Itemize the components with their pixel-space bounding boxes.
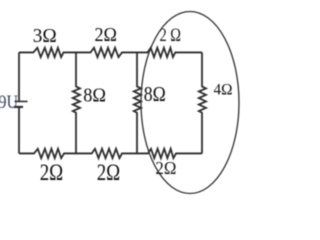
- svg-text:2Ω: 2Ω: [95, 25, 118, 46]
- svg-text:9U: 9U: [0, 93, 18, 113]
- svg-text:8Ω: 8Ω: [83, 86, 106, 107]
- svg-text:3Ω: 3Ω: [33, 26, 57, 47]
- svg-text:8Ω: 8Ω: [144, 82, 166, 106]
- svg-text:2Ω: 2Ω: [155, 158, 176, 178]
- svg-text:2Ω: 2Ω: [40, 160, 64, 185]
- svg-text:4Ω: 4Ω: [214, 82, 233, 99]
- svg-text:2Ω: 2Ω: [97, 160, 121, 185]
- svg-text:2 Ω: 2 Ω: [160, 25, 182, 46]
